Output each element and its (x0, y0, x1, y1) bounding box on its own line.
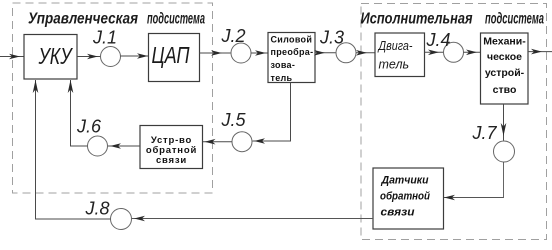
wire: Устр-во обратной связи to J.6 (108, 143, 141, 149)
label J.7 (472, 123, 498, 143)
wire: Силовой преобразователь to J.3 (314, 50, 336, 56)
svg-text:тель: тель (271, 73, 293, 83)
svg-text:Силовой: Силовой (271, 35, 313, 45)
label J.5 (221, 110, 247, 130)
label J.8 (85, 199, 110, 219)
svg-text:подсистема: подсистема (485, 11, 544, 28)
label J.1 (92, 28, 117, 48)
wire: J.3 to Двигатель (356, 50, 375, 56)
node J.8 junction (111, 209, 132, 230)
title: Исполнительная подсистема (361, 11, 545, 28)
wire: УКУ to J.1 (77, 54, 101, 60)
block ЦАП (DAC) (149, 34, 200, 82)
block Механическое устройство (mechanical device) (481, 33, 529, 104)
wire: Механическое устройство output to right edge (528, 49, 552, 55)
wire: ЦАП to J.2 (200, 50, 231, 56)
svg-text:обратной: обратной (380, 191, 430, 203)
dashed frame: Исполнительная подсистема subsystem boundary (361, 4, 547, 240)
block Устр-во обратной связи (feedback device) (140, 126, 203, 169)
block Датчики обратной связи (feedback sensors) (373, 168, 444, 229)
svg-text:связи: связи (381, 207, 415, 219)
svg-text:УКУ: УКУ (38, 43, 74, 69)
block Силовой преобразователь (power converter) (268, 33, 315, 84)
svg-text:J.5: J.5 (221, 110, 247, 130)
label J.6 (76, 117, 102, 137)
label J.3 (319, 28, 344, 48)
svg-text:ЦАП: ЦАП (152, 42, 190, 68)
wire: J.7 to Датчики обратной связи (444, 162, 504, 200)
dashed frame: Управленческая подсистема subsystem boundary (13, 3, 213, 193)
node J.6 junction (88, 136, 108, 156)
title: Управленческая подсистема (28, 11, 205, 28)
wire: J.8 up into УКУ (33, 80, 111, 219)
node J.5 junction (232, 132, 252, 152)
wire: Датчики обратной связи to J.8 (132, 216, 374, 222)
svg-text:связи: связи (156, 155, 187, 166)
node J.3 junction (336, 43, 356, 63)
svg-text:J.4: J.4 (426, 30, 451, 50)
wire: Силовой преобразователь down to J.5 feedback tap (253, 83, 291, 144)
wire: system input arrow into УКУ (0, 54, 24, 60)
node J.1 summing junction (101, 47, 121, 67)
svg-text:подсистема: подсистема (147, 11, 205, 28)
wire: Двигатель to J.4 (425, 50, 444, 56)
svg-text:зова-: зова- (271, 60, 296, 70)
svg-text:ство: ство (493, 84, 517, 96)
wire: Механическое устройство down to J.7 (501, 104, 507, 141)
svg-text:J.2: J.2 (221, 26, 246, 46)
wire: J.6 up into УКУ (68, 80, 88, 146)
label J.2 (221, 26, 246, 46)
svg-text:Управленческая: Управленческая (28, 11, 138, 28)
svg-text:тель: тель (379, 58, 410, 72)
node J.7 junction (494, 141, 515, 162)
svg-text:Датчики: Датчики (381, 175, 429, 187)
svg-text:J.1: J.1 (92, 28, 117, 48)
svg-text:J.3: J.3 (319, 28, 344, 48)
wire: J.1 to ЦАП (121, 53, 149, 59)
block УКУ (control unit) (24, 35, 77, 80)
wire: J.2 to Силовой преобразователь (251, 50, 268, 56)
svg-text:Исполнительная: Исполнительная (361, 11, 473, 28)
svg-text:преобра-: преобра- (271, 47, 314, 57)
svg-text:J.6: J.6 (76, 117, 102, 137)
node J.2 junction (231, 43, 251, 63)
svg-text:Двига-: Двига- (377, 39, 413, 53)
svg-text:устрой-: устрой- (485, 67, 525, 79)
wire: J.5 to Устр-во обратной связи (203, 139, 233, 145)
svg-text:ческое: ческое (487, 51, 522, 63)
block Двигатель (motor) (375, 33, 425, 77)
label J.4 (426, 30, 451, 50)
svg-text:Механи-: Механи- (483, 36, 526, 48)
node J.4 junction (444, 42, 464, 62)
svg-text:J.8: J.8 (85, 199, 110, 219)
svg-text:J.7: J.7 (472, 123, 498, 143)
wire: J.4 to Механическое устройство (464, 50, 481, 56)
